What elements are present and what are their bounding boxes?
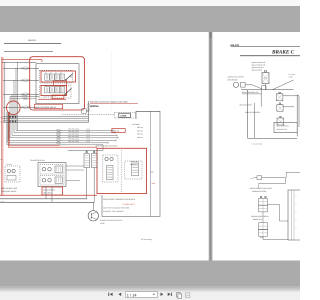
svg-text:bel Switch: bel Switch xyxy=(132,123,140,126)
svg-text:RL: RL xyxy=(55,73,57,75)
svg-text:FREE WHEEL HUB: FREE WHEEL HUB xyxy=(1,187,18,190)
svg-text:Indication of pressure regulat: Indication of pressure regulator valve l… xyxy=(90,101,128,104)
svg-text:RL: RL xyxy=(50,73,52,75)
svg-text:A: A xyxy=(296,203,297,205)
svg-text:1 / 14: 1 / 14 xyxy=(127,292,138,297)
svg-text:4WD CONTROL RELAY: 4WD CONTROL RELAY xyxy=(36,106,57,109)
svg-text:4WD SHIFT DIAGRAM FOR WIRE: 4WD SHIFT DIAGRAM FOR WIRE xyxy=(103,207,130,210)
svg-text:DM-401: DM-401 xyxy=(28,39,37,42)
svg-text:CAMS: CAMS xyxy=(120,115,127,118)
svg-text:WIRING: WIRING xyxy=(90,105,99,108)
svg-text:SOLENOID VALVE: SOLENOID VALVE xyxy=(1,190,17,193)
svg-text:A: A xyxy=(296,227,297,229)
svg-text:Rear: Rear xyxy=(260,236,264,239)
svg-text:7.5-4WD SHIFT: 7.5-4WD SHIFT xyxy=(122,203,136,206)
svg-text:RL: RL xyxy=(45,85,47,87)
svg-text:CONNECT THE HARNESS: CONNECT THE HARNESS xyxy=(103,210,125,213)
svg-text:A: A xyxy=(296,211,297,213)
svg-text:CASE SPEED TRANSFER CASE WITH: CASE SPEED TRANSFER CASE WITH xyxy=(103,198,136,201)
svg-text:BRAKE C: BRAKE C xyxy=(271,50,295,56)
svg-text:A: A xyxy=(296,219,297,221)
svg-text:RL: RL xyxy=(50,85,52,87)
svg-text:RL: RL xyxy=(60,73,62,75)
svg-text:DC ion lining: DC ion lining xyxy=(141,238,152,241)
svg-text:A: A xyxy=(296,195,297,197)
svg-text:TRANSFER RELAY: TRANSFER RELAY xyxy=(30,159,46,162)
svg-text:POWER TRANSISTOR ASSY: POWER TRANSISTOR ASSY xyxy=(100,219,123,222)
svg-text:RL: RL xyxy=(45,73,47,75)
